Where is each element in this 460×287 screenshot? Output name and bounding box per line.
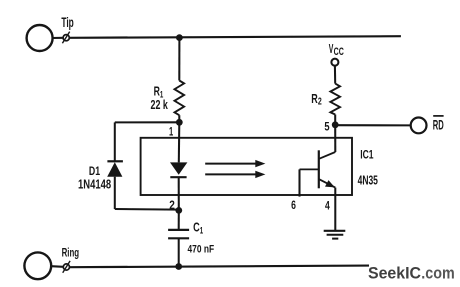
optocoupler IC1 body box <box>141 138 352 195</box>
node junction top rail / R1 <box>176 34 183 41</box>
wire node 5 to RD terminal <box>335 124 411 126</box>
node junction bottom rail / C1 <box>175 263 182 270</box>
label Ring <box>62 247 80 260</box>
wire R2 to node 5 <box>334 115 336 125</box>
LED of IC1 (pointing down) <box>170 162 187 177</box>
pin label 1 <box>169 125 173 139</box>
wire top rail to R1 <box>178 38 180 81</box>
wire C1 to bottom rail <box>178 238 180 266</box>
resistor R1 <box>175 81 185 116</box>
wire Vcc to R2 <box>334 66 336 84</box>
wire node 2 to C1 <box>178 210 180 230</box>
ground <box>324 231 346 239</box>
label D1 <box>89 164 101 178</box>
label 4N35 value of IC1 <box>358 172 378 187</box>
svg-text:470 nF: 470 nF <box>188 244 215 256</box>
resistor R2 <box>330 84 340 115</box>
label R1 <box>154 84 164 100</box>
label IC1 <box>360 147 374 161</box>
terminal RD circle <box>411 118 427 134</box>
pin label 6 <box>291 198 296 212</box>
svg-text:Ring: Ring <box>62 247 80 260</box>
svg-text:1: 1 <box>169 125 173 139</box>
svg-text:SeekIC.com: SeekIC.com <box>368 265 455 283</box>
phototransistor of IC1 <box>300 150 336 188</box>
svg-text:C: C <box>193 221 200 235</box>
wire Ring circle to jack contact <box>51 265 63 268</box>
pin label 2 <box>169 198 175 212</box>
svg-text:IC1: IC1 <box>360 147 374 161</box>
Ring jack contact (small circle with slash) <box>63 261 70 273</box>
wire node 1 to LED anode <box>178 122 181 162</box>
label Vcc <box>329 41 344 58</box>
light arrow lower <box>205 171 265 178</box>
pin label 4 <box>325 198 330 212</box>
wire node 1 to D1 branch <box>115 121 180 123</box>
terminal Ring circle <box>24 252 51 279</box>
label 1N4148 value of D1 <box>78 176 111 191</box>
svg-text:Tip: Tip <box>61 15 73 30</box>
pin 6 stub <box>298 169 300 196</box>
light arrow upper <box>205 160 265 167</box>
Tip jack contact (small circle with slash) <box>62 32 69 44</box>
svg-text:2: 2 <box>169 198 175 212</box>
label RD with overline <box>433 116 444 132</box>
wire emitter pin 4 to ground <box>334 188 336 231</box>
node 5 junction <box>332 121 339 128</box>
svg-text:CC: CC <box>334 46 344 58</box>
svg-text:RD: RD <box>433 117 444 132</box>
node 1 junction <box>176 119 183 126</box>
label C1 <box>193 221 204 237</box>
label R2 <box>311 91 322 108</box>
capacitor C1 <box>168 230 189 238</box>
label 470 nF value of C1 <box>188 244 215 256</box>
wire bottom rail <box>70 266 369 268</box>
svg-text:4: 4 <box>325 198 330 212</box>
svg-text:5: 5 <box>324 120 329 134</box>
watermark SeekIC.com <box>368 265 455 283</box>
svg-text:4N35: 4N35 <box>358 172 378 187</box>
svg-text:22 k: 22 k <box>151 97 169 112</box>
label 22 k value of R1 <box>151 97 169 112</box>
wire LED cathode to node 2 <box>178 177 180 210</box>
svg-text:2: 2 <box>318 97 322 108</box>
node 2 junction <box>175 207 182 214</box>
wire top rail <box>69 36 401 38</box>
svg-text:1N4148: 1N4148 <box>78 176 111 191</box>
svg-text:1: 1 <box>200 225 204 236</box>
wire Tip circle to jack contact <box>52 37 63 39</box>
Vcc terminal (open circle) <box>331 59 338 66</box>
wire R1 to node 1 <box>178 115 180 122</box>
svg-text:6: 6 <box>291 198 296 212</box>
diode D1 (cathode bar up, pointing up) <box>107 161 123 176</box>
label Tip <box>61 15 73 30</box>
wire D1 branch to node 2 <box>115 208 179 211</box>
wire D1 lower lead <box>114 177 116 209</box>
wire node 5 to phototransistor collector <box>334 125 336 152</box>
terminal Tip circle <box>27 25 53 51</box>
pin label 5 <box>324 120 329 134</box>
wire D1 branch upper lead <box>114 122 116 161</box>
